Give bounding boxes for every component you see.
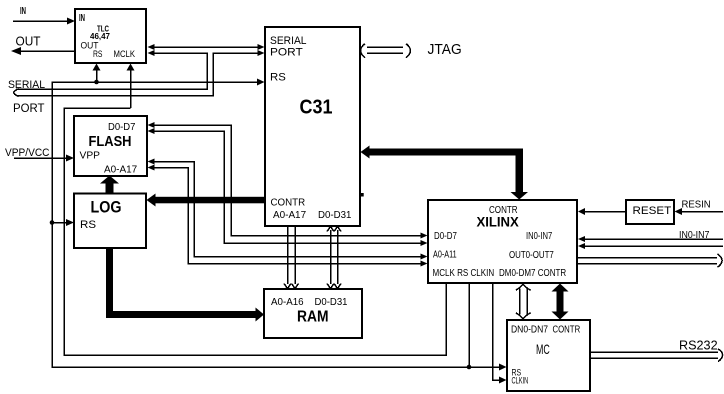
wire XILINX RS pin vertical <box>468 284 470 368</box>
wire OUT from TLC <box>18 50 75 52</box>
svg-text:SERIAL: SERIAL <box>270 35 307 47</box>
svg-text:IN: IN <box>20 6 26 17</box>
pin stub on C31 right edge <box>361 193 364 197</box>
svg-text:RS: RS <box>270 72 286 84</box>
reset RESET block <box>626 200 674 224</box>
serial connector open arrowhead <box>14 89 19 97</box>
svg-text:A0-A17: A0-A17 <box>104 165 138 176</box>
bus IN0-IN7 into XILINX line 2 <box>578 243 723 249</box>
svg-text:MCLK: MCLK <box>114 49 136 59</box>
svg-text:OUT0-OUT7: OUT0-OUT7 <box>509 250 554 261</box>
wire XILINX CLKIN to MC CLKIN <box>493 284 507 384</box>
svg-text:RESIN: RESIN <box>682 199 711 211</box>
wire RESET to XILINX <box>578 208 626 215</box>
svg-text:DM0-DM7 CONTR: DM0-DM7 CONTR <box>499 268 566 279</box>
svg-text:D0-D7: D0-D7 <box>434 231 457 242</box>
bus C31 A0-A17 to RAM line 1 <box>284 227 291 289</box>
bus C31 A0-A17 to RAM line 2 <box>292 227 299 289</box>
wire serial line TLC-C31 upper <box>148 44 265 50</box>
bus JTAG <box>361 44 411 58</box>
bus FLASH D0-D7 to XILINX D0-D7 line 1 <box>148 122 428 239</box>
svg-text:VPP/VCC: VPP/VCC <box>5 147 50 159</box>
svg-text:JTAG: JTAG <box>428 41 462 58</box>
svg-text:LOG: LOG <box>91 198 122 217</box>
svg-text:D0-D7: D0-D7 <box>108 122 136 133</box>
wire VPP/VCC into FLASH <box>14 155 74 162</box>
wire IN to TLC <box>13 20 68 22</box>
svg-text:RAM: RAM <box>297 309 329 326</box>
svg-text:IN: IN <box>79 13 85 24</box>
wire TLC MCLK pin down to MCLK net <box>127 64 135 109</box>
svg-text:RS232: RS232 <box>679 339 718 353</box>
svg-text:D0-D31: D0-D31 <box>315 297 348 308</box>
svg-text:CONTR: CONTR <box>271 198 306 209</box>
svg-text:RESET: RESET <box>633 205 672 217</box>
svg-text:VPP: VPP <box>80 151 101 162</box>
svg-text:RS: RS <box>93 49 103 59</box>
bus thick C31 to XILINX CONTR <box>361 146 529 200</box>
svg-text:FLASH: FLASH <box>89 133 132 150</box>
svg-text:PORT: PORT <box>13 103 45 115</box>
svg-text:IN0-IN7: IN0-IN7 <box>526 231 553 242</box>
micro MC block <box>507 320 590 391</box>
wire serial line from TLC to external connector <box>16 50 207 89</box>
fpga XILINX block <box>428 200 577 283</box>
bus FLASH A0-A17 to XILINX A0-A11 line 2 <box>148 165 428 267</box>
svg-text:PORT: PORT <box>270 47 303 59</box>
bus OUT0-OUT7 out of XILINX <box>578 254 722 267</box>
wire RS net: left vertical and run to C31 RS <box>52 79 500 368</box>
bus thick XILINX CONTR to MC CONTR <box>552 284 569 320</box>
wire MCLK net: down left side along bottom to XILINX MCLK <box>64 108 446 355</box>
wire arrow into MC RS <box>499 364 507 371</box>
svg-text:A0-A17: A0-A17 <box>273 210 307 221</box>
memory FLASH block <box>74 116 147 176</box>
wire TLC RS pin down to RS net <box>93 64 101 83</box>
junction dot LOG RS tap <box>50 220 55 225</box>
svg-text:MCLK RS CLKIN: MCLK RS CLKIN <box>433 268 495 279</box>
wire LOG RS branch <box>52 219 74 226</box>
junction dot TLC RS on RS net <box>94 80 99 85</box>
svg-text:CLKIN: CLKIN <box>512 376 529 386</box>
bus RS232 out of MC <box>591 349 723 362</box>
junction dot XILINX RS tap <box>467 365 472 370</box>
svg-text:D0-D31: D0-D31 <box>318 210 352 221</box>
processor C31 block <box>265 27 360 226</box>
bus hollow XILINX DM0-DM7 to MC DN0-DN7 <box>516 284 531 318</box>
svg-text:A0-A11: A0-A11 <box>433 250 457 261</box>
svg-text:MC: MC <box>536 341 550 357</box>
bus IN0-IN7 into XILINX line 1 <box>578 236 723 242</box>
wire RESIN into RESET <box>675 208 724 215</box>
codec U1 TLC46/47 block <box>75 9 146 63</box>
wire serial line from C31 to external connector <box>17 50 265 96</box>
svg-text:A0-A16: A0-A16 <box>271 297 304 308</box>
bus FLASH D0-D7 to XILINX D0-D7 line 2 <box>148 128 428 246</box>
svg-text:DN0-DN7: DN0-DN7 <box>511 325 548 336</box>
bus thick FLASH A0-A17 to LOG <box>100 176 119 195</box>
bus thick LOG to C31 CONTR <box>147 194 266 207</box>
memory RAM block <box>264 289 362 338</box>
svg-text:46,47: 46,47 <box>90 31 110 41</box>
svg-text:C31: C31 <box>300 97 333 119</box>
bus C31 D0-D31 to RAM line 1 <box>327 227 334 289</box>
bus thick LOG to RAM <box>106 248 264 322</box>
svg-text:CONTR: CONTR <box>553 325 581 336</box>
bus FLASH A0-A17 to XILINX A0-A11 line 1 <box>148 159 428 260</box>
svg-text:OUT: OUT <box>16 35 41 49</box>
logic LOG block <box>74 194 146 249</box>
svg-text:XILINX: XILINX <box>477 215 519 230</box>
svg-text:RS: RS <box>80 219 96 231</box>
bus C31 D0-D31 to RAM line 2 <box>334 227 341 289</box>
